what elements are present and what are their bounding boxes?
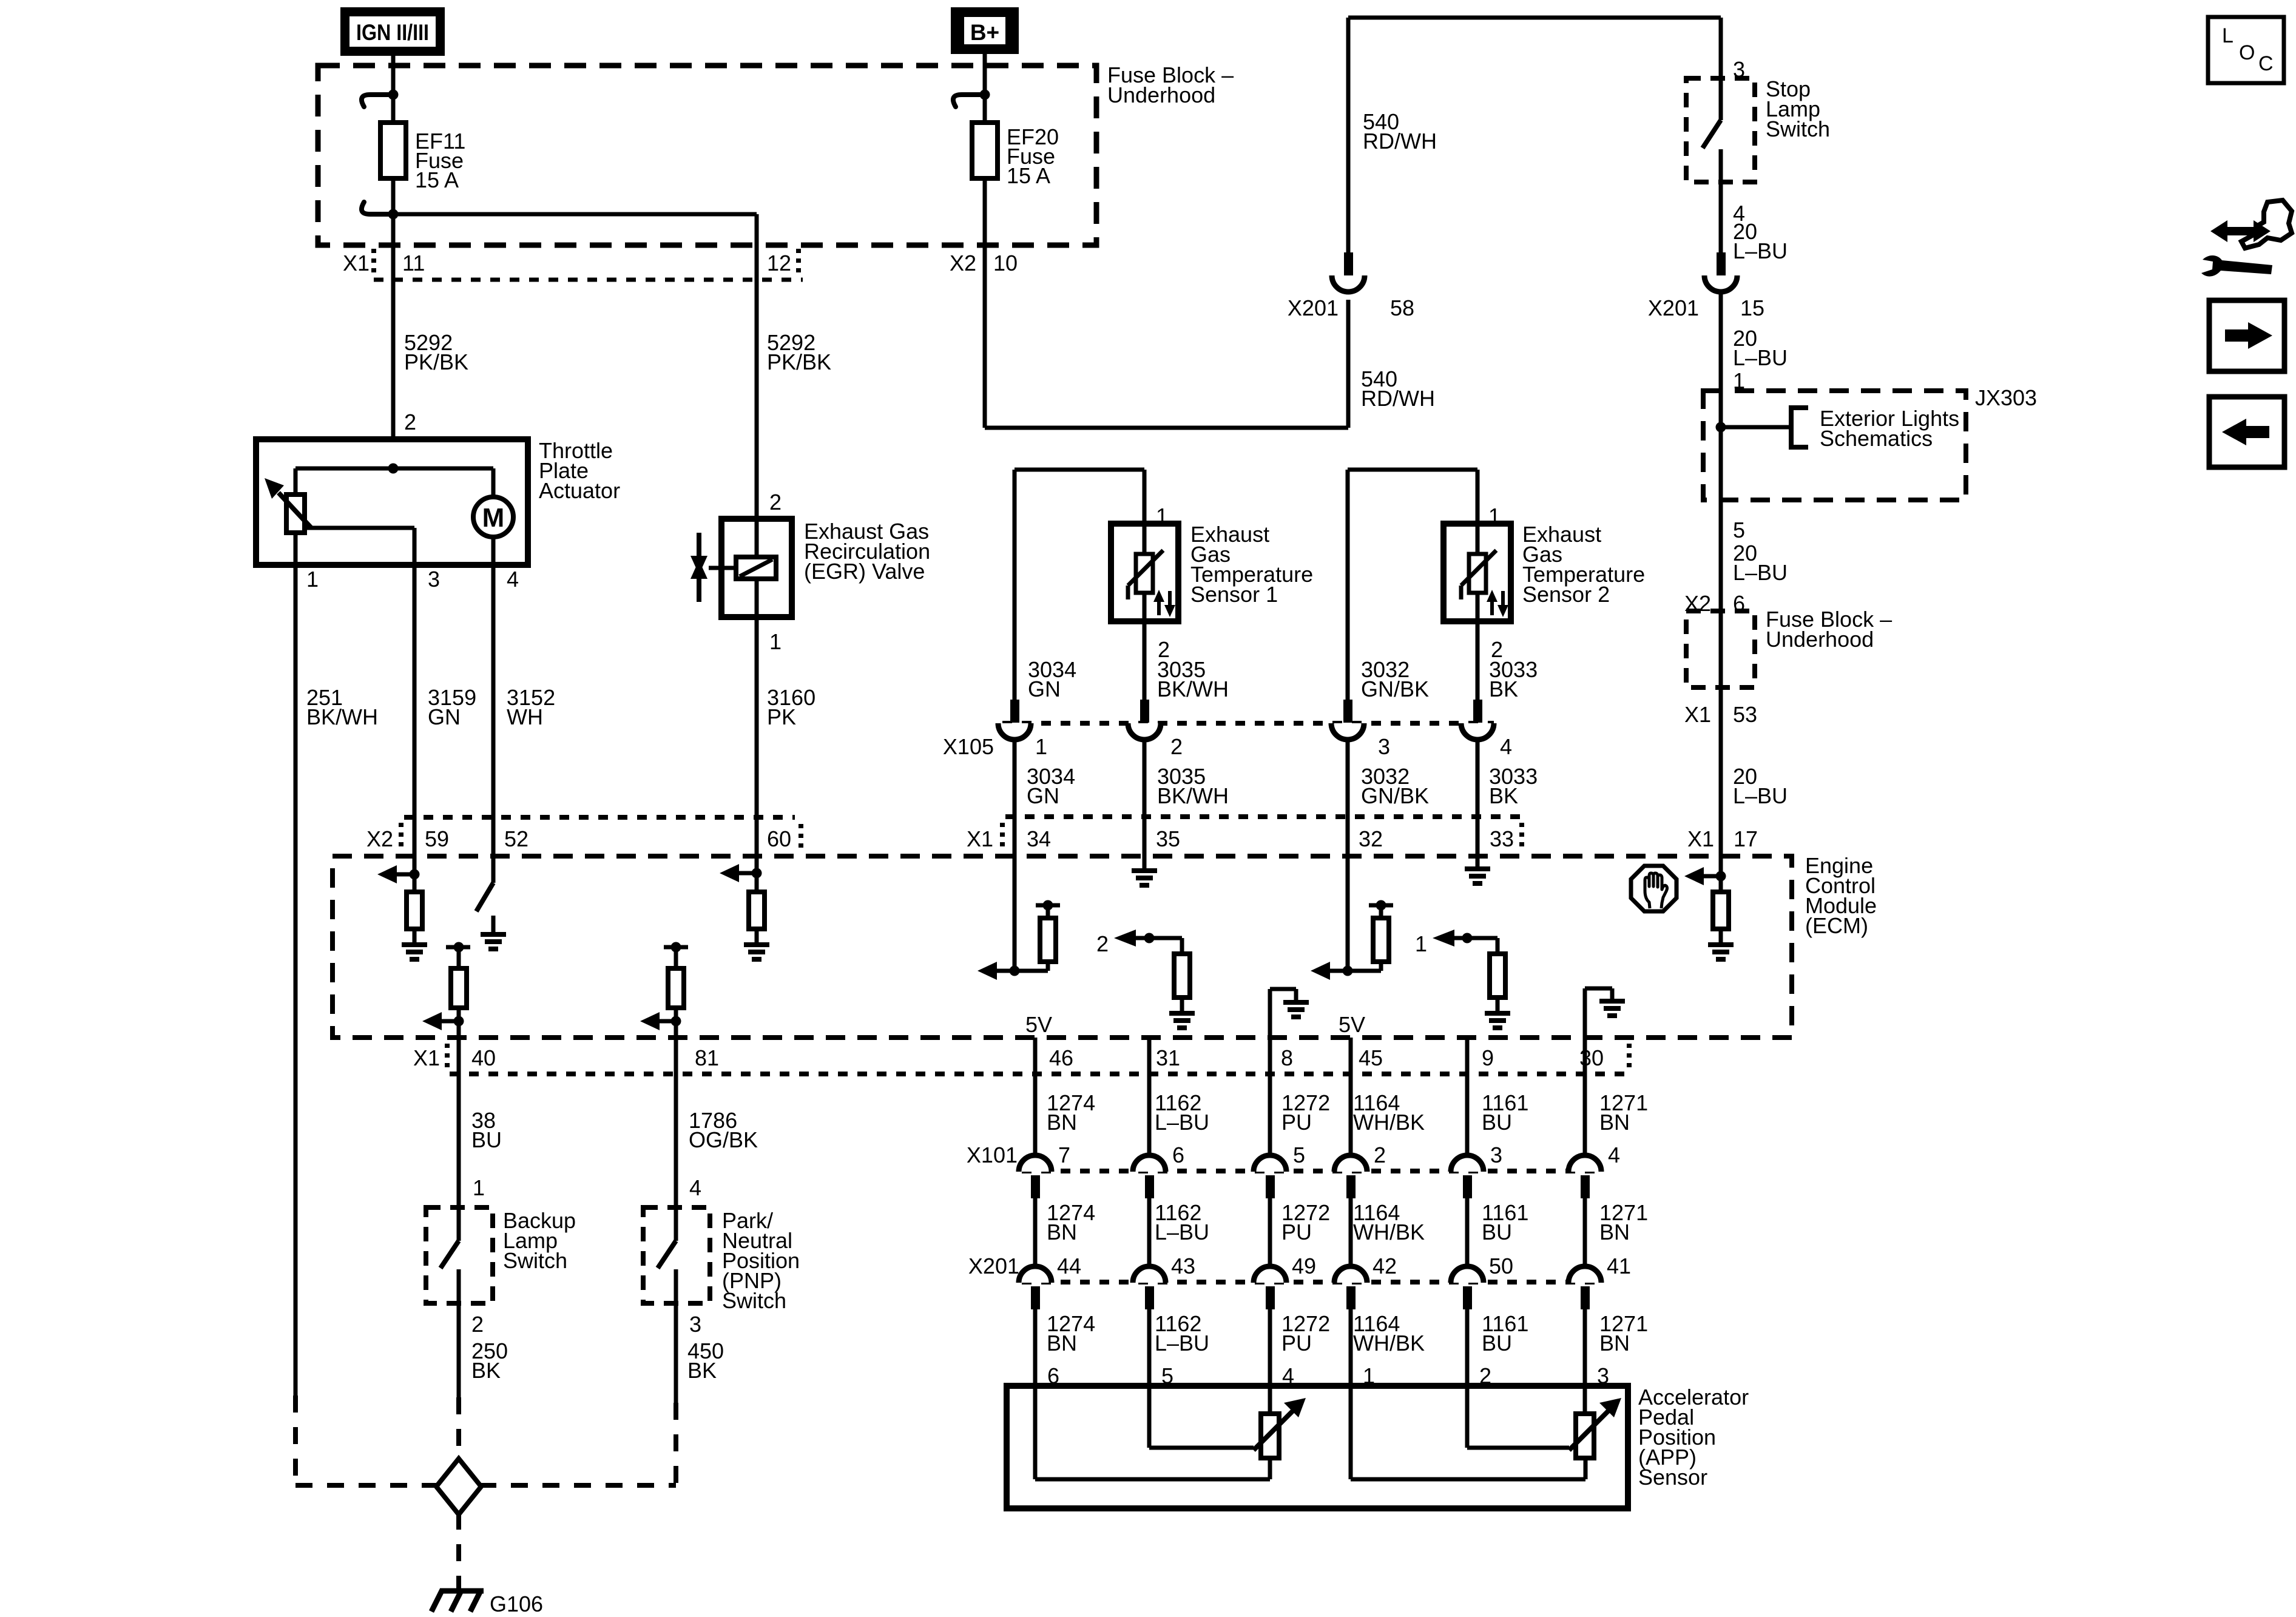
label wire 1161 BU (3) (1482, 1311, 1528, 1355)
svg-text:X1: X1 (1684, 702, 1711, 727)
label wire 38 BU (471, 1108, 502, 1152)
svg-text:52: 52 (504, 826, 528, 851)
ECM internal: pin 17 sense (1684, 867, 1734, 959)
label EF11 Fuse 15 A (415, 129, 465, 192)
svg-text:Sensor: Sensor (1638, 1465, 1707, 1490)
label Exterior Lights Schematics (1820, 406, 1959, 451)
label wire 1272 PU (1) (1281, 1090, 1330, 1135)
svg-text:44: 44 (1057, 1254, 1081, 1278)
svg-text:GN: GN (1028, 677, 1061, 701)
svg-text:WH/BK: WH/BK (1353, 1220, 1425, 1244)
wire 250 BK (457, 1303, 461, 1460)
svg-text:Underhood: Underhood (1766, 627, 1874, 652)
park/neutral position switch (643, 1207, 710, 1303)
svg-text:1: 1 (1156, 504, 1168, 528)
svg-text:WH/BK: WH/BK (1353, 1110, 1425, 1135)
label wire 20 L-BU (1) (1733, 219, 1788, 263)
label X1 17 (1687, 826, 1758, 851)
label pin 2 EGT1 (1158, 637, 1170, 662)
svg-text:RD/WH: RD/WH (1361, 386, 1435, 411)
connector row X101 (967, 1143, 1620, 1198)
label wire 3160 PK (767, 685, 815, 729)
connector row X2 59/52/60 (366, 817, 801, 852)
svg-text:L–BU: L–BU (1155, 1220, 1209, 1244)
ECM internal: pin 30 ground (1585, 988, 1625, 1038)
label wire 1162 L–BU (2) (1155, 1200, 1209, 1244)
node throttle feed junction (295, 464, 493, 474)
wire X201-15 to JX303 (1719, 291, 1723, 391)
svg-text:4: 4 (689, 1175, 701, 1200)
wire pin 59 into ECM (413, 817, 417, 892)
svg-text:3: 3 (1378, 734, 1390, 759)
svg-text:81: 81 (695, 1045, 719, 1070)
icon arrow back (2209, 397, 2284, 467)
label pin 4 throttle (507, 567, 519, 592)
wire EF11 to X1-11 (391, 178, 396, 439)
label pin 1 EGT2 (1488, 504, 1501, 528)
svg-text:1: 1 (1035, 734, 1047, 759)
label wire 5292 PK/BK (right) (767, 330, 831, 374)
connector row X1 11/12 (fuse block) (343, 249, 803, 280)
svg-text:IGN II/III: IGN II/III (356, 20, 429, 45)
svg-text:WH/BK: WH/BK (1353, 1331, 1425, 1355)
icon arrow next (2209, 300, 2284, 371)
label Fuse Block - Underhood (right) (1766, 607, 1892, 652)
icon diagnostic tools (2201, 200, 2292, 277)
label wire 3159 GN (428, 685, 476, 729)
wire pin 52 into ECM (491, 817, 496, 883)
svg-text:60: 60 (767, 826, 791, 851)
label pin 1 EGR (769, 629, 782, 654)
engine control module (ECM) box (333, 856, 1792, 1038)
wire 540 RD/WH feed (985, 18, 1721, 428)
svg-text:15 A: 15 A (415, 167, 459, 192)
label wire 250 BK (471, 1338, 508, 1383)
svg-text:Actuator: Actuator (539, 478, 620, 503)
power node IGN II/III (340, 7, 445, 56)
wire fuse block to ECM X1-17 (1719, 611, 1723, 856)
svg-text:X105: X105 (943, 734, 994, 759)
svg-text:4: 4 (507, 567, 519, 592)
svg-text:BK: BK (1489, 783, 1518, 808)
label wire 1271 BN (3) (1599, 1311, 1648, 1355)
svg-text:X201: X201 (1288, 295, 1339, 320)
wires X201 to APP sensor (1035, 1309, 1585, 1386)
label wire 1161 BU (1) (1482, 1090, 1528, 1135)
ECM internal: pin 34 pull-up (977, 900, 1060, 981)
svg-text:X1: X1 (413, 1045, 440, 1070)
stop lamp switch (1686, 78, 1755, 182)
ECM internal: pin 31 sense (1096, 930, 1195, 1028)
svg-text:BK: BK (1489, 677, 1518, 701)
label JX303 (1975, 385, 2037, 410)
fuse EF11 (362, 90, 406, 220)
ECM internal: pin 59 sense (377, 865, 427, 959)
label wire 1272 PU (2) (1281, 1200, 1330, 1244)
svg-text:BU: BU (1482, 1331, 1512, 1355)
svg-text:Schematics: Schematics (1820, 426, 1933, 451)
label pin 1 JX303 (1733, 368, 1745, 393)
svg-text:45: 45 (1359, 1045, 1383, 1070)
svg-text:33: 33 (1490, 826, 1514, 851)
svg-text:GN/BK: GN/BK (1361, 783, 1429, 808)
label wire 1272 PU (3) (1281, 1311, 1330, 1355)
wire JX303 to fuse block X2-6 (1719, 500, 1723, 611)
svg-text:2: 2 (1096, 931, 1109, 956)
potentiometer throttle position (265, 468, 414, 565)
motor M throttle (473, 468, 513, 565)
svg-text:X1: X1 (1687, 826, 1714, 851)
svg-text:L–BU: L–BU (1733, 560, 1788, 585)
svg-text:1: 1 (306, 567, 319, 592)
svg-text:X2: X2 (950, 251, 976, 275)
svg-text:Underhood: Underhood (1107, 83, 1215, 107)
svg-text:2: 2 (471, 1312, 484, 1337)
svg-text:35: 35 (1156, 826, 1180, 851)
label wire 1164 WH/BK (3) (1353, 1311, 1425, 1355)
junction block JX303 (1703, 391, 1966, 500)
label wire 3035 BK/WH (upper) (1157, 657, 1229, 701)
label wire 1162 L–BU (1) (1155, 1090, 1209, 1135)
wire pin 60 into ECM (755, 817, 759, 892)
APP wiper wire 1 (pin 5) (1149, 1386, 1254, 1448)
ECM internal: 5V source pin 45 (1339, 1012, 1365, 1037)
wire 3152 WH (491, 565, 496, 856)
svg-text:L–BU: L–BU (1155, 1331, 1209, 1355)
svg-text:9: 9 (1482, 1045, 1494, 1070)
svg-text:L: L (2222, 24, 2234, 47)
svg-text:PU: PU (1281, 1220, 1312, 1244)
svg-text:42: 42 (1373, 1254, 1397, 1278)
svg-text:JX303: JX303 (1975, 385, 2037, 410)
svg-text:5V: 5V (1025, 1012, 1052, 1037)
wire 3032 GN/BK to ECM (1346, 740, 1350, 856)
wire 450 BK (674, 1303, 678, 1485)
ECM internal: 5V source pin 46 (1025, 1012, 1052, 1037)
label pin 2 EGR (769, 490, 782, 515)
connector X201-15 (1648, 252, 1764, 320)
wire stop lamp to X201-15 (1719, 182, 1723, 255)
svg-text:Sensor 1: Sensor 1 (1190, 582, 1278, 607)
svg-text:1: 1 (769, 629, 782, 654)
svg-text:BN: BN (1047, 1220, 1077, 1244)
accelerator pedal position (APP) sensor (1007, 1386, 1628, 1508)
svg-text:X2: X2 (366, 826, 393, 851)
svg-text:8: 8 (1281, 1045, 1293, 1070)
svg-text:GN: GN (428, 704, 461, 729)
svg-text:X1: X1 (967, 826, 993, 851)
label 540 RD/WH (upper) (1363, 109, 1437, 154)
ECM internal: pin 81 driver (640, 942, 688, 1038)
wire EF11 branch to X1-12 (393, 214, 757, 519)
label wire 3152 WH (507, 685, 555, 729)
svg-text:BK: BK (471, 1358, 501, 1383)
label pin 1 backup lamp switch (473, 1175, 485, 1200)
splice to ground bus (436, 1459, 481, 1514)
svg-text:50: 50 (1489, 1254, 1513, 1278)
svg-text:5: 5 (1293, 1143, 1305, 1167)
svg-text:4: 4 (1500, 734, 1512, 759)
ECM internal: pin 60 sense (720, 864, 769, 959)
label wire 3034 GN (upper) (1028, 657, 1076, 701)
svg-text:17: 17 (1734, 826, 1758, 851)
label pin 2 EGT2 (1491, 637, 1503, 662)
ECM internal: pin 8 ground (1270, 989, 1309, 1038)
icon stop hand (1631, 866, 1676, 911)
label Stop Lamp Switch (1766, 76, 1830, 141)
label G106 (490, 1592, 543, 1616)
svg-text:PU: PU (1281, 1110, 1312, 1135)
svg-text:PK/BK: PK/BK (767, 349, 831, 374)
label wire 20 L-BU (4) (1733, 764, 1788, 808)
label wire 251 BK/WH (306, 685, 378, 729)
APP potentiometer 2 (1569, 1386, 1621, 1479)
svg-text:Switch: Switch (503, 1248, 567, 1273)
wire B+ to fuse EF20 (983, 54, 987, 123)
svg-text:6: 6 (1172, 1143, 1184, 1167)
svg-text:BK/WH: BK/WH (1157, 677, 1229, 701)
label Accelerator Pedal Position (APP) Sensor (1638, 1385, 1749, 1490)
svg-text:OG/BK: OG/BK (689, 1127, 758, 1152)
svg-text:GN: GN (1027, 783, 1059, 808)
wire through JX303 (1719, 391, 1723, 500)
wire pin 32 into ECM (1346, 817, 1350, 971)
connector row X1 (ECM bottom) (413, 1044, 1629, 1074)
connector X201-58 (1288, 252, 1414, 320)
svg-text:WH: WH (507, 704, 543, 729)
svg-text:(ECM): (ECM) (1805, 913, 1868, 938)
label wire 1271 BN (2) (1599, 1200, 1648, 1244)
svg-text:(EGR) Valve: (EGR) Valve (804, 559, 925, 584)
ground bus wires (295, 1483, 676, 1488)
wire 3033 BK to ECM (1476, 740, 1480, 856)
wire 3034 GN to ECM (1013, 740, 1017, 856)
svg-text:BU: BU (1482, 1220, 1512, 1244)
fuse block - underhood box (top) (318, 66, 1096, 245)
label wire 1786 OG/BK (689, 1108, 758, 1152)
svg-text:B+: B+ (970, 20, 999, 45)
exhaust gas temperature sensor 1 (1015, 470, 1178, 704)
svg-text:BN: BN (1599, 1220, 1630, 1244)
svg-text:2: 2 (769, 490, 782, 515)
backup lamp switch (426, 1207, 493, 1303)
label Park/Neutral Position (PNP) Switch (722, 1208, 800, 1313)
svg-text:1: 1 (1415, 931, 1427, 956)
wire pin 33 into ECM (1476, 817, 1480, 869)
svg-text:Switch: Switch (1766, 116, 1830, 141)
svg-text:BN: BN (1047, 1331, 1077, 1355)
label wire 450 BK (687, 1338, 724, 1383)
svg-text:49: 49 (1292, 1254, 1316, 1278)
wire 251 BK/WH (294, 565, 298, 1485)
svg-text:43: 43 (1171, 1254, 1195, 1278)
label EF20 Fuse 15 A (1007, 124, 1059, 188)
label pin 1 throttle (306, 567, 319, 592)
svg-text:58: 58 (1390, 295, 1414, 320)
label pin 3 throttle (428, 567, 440, 592)
svg-text:BU: BU (471, 1127, 502, 1152)
ground G106 (431, 1590, 484, 1612)
label wire 1274 BN (2) (1047, 1200, 1095, 1244)
label Fuse Block - Underhood (top) (1107, 62, 1234, 107)
svg-text:15: 15 (1740, 295, 1764, 320)
label Exhaust Gas Recirculation (EGR) Valve (804, 519, 930, 584)
label pin 2 throttle (404, 410, 416, 434)
svg-text:PU: PU (1281, 1331, 1312, 1355)
wire 3160 PK (755, 617, 759, 856)
svg-text:3: 3 (428, 567, 440, 592)
label pin 4 stop lamp switch (1733, 201, 1745, 226)
svg-text:BU: BU (1482, 1110, 1512, 1135)
label wire 1161 BU (2) (1482, 1200, 1528, 1244)
APP potentiometer 1 (1254, 1386, 1306, 1479)
label wire 20 L-BU (3) (1733, 541, 1788, 585)
svg-text:15 A: 15 A (1007, 163, 1050, 188)
label wire 1164 WH/BK (1) (1353, 1090, 1425, 1135)
svg-text:12: 12 (767, 251, 791, 275)
svg-text:34: 34 (1027, 826, 1051, 851)
svg-text:X101: X101 (967, 1143, 1018, 1167)
wire 3035 BK/WH to ECM (1143, 740, 1147, 856)
wires ECM X1 to X101 (1035, 1038, 1585, 1155)
svg-text:3: 3 (689, 1312, 701, 1337)
APP wiper wire 2 (pin 2) (1467, 1386, 1569, 1448)
svg-text:31: 31 (1156, 1045, 1180, 1070)
svg-text:53: 53 (1733, 702, 1757, 727)
svg-text:59: 59 (425, 826, 449, 851)
ECM internal: pin 9 sense (1415, 930, 1510, 1028)
svg-text:2: 2 (404, 410, 416, 434)
svg-text:1: 1 (473, 1175, 485, 1200)
label wire 3032 GN/BK (upper) (1361, 657, 1429, 701)
label Engine Control Module (ECM) (1805, 853, 1877, 938)
node junction to exterior lights (1716, 408, 1809, 447)
label Exhaust Gas Temperature Sensor 2 (1522, 522, 1645, 607)
svg-text:3: 3 (1490, 1143, 1502, 1167)
throttle plate actuator (256, 439, 528, 565)
wire 1786 OG/BK (674, 1038, 678, 1207)
svg-text:BK/WH: BK/WH (1157, 783, 1229, 808)
icon LOC (2208, 17, 2284, 83)
wire pin 34 into ECM (1013, 817, 1017, 971)
label wire 3034 GN (lower) (1027, 764, 1075, 808)
label Exhaust Gas Temperature Sensor 1 (1190, 522, 1313, 607)
label Throttle Plate Actuator (539, 438, 620, 503)
label pin 3 PNP switch (689, 1312, 701, 1337)
svg-text:4: 4 (1608, 1143, 1620, 1167)
power node B+ (951, 7, 1019, 54)
wires X101 to X201 (1035, 1198, 1585, 1266)
labels APP sensor pins (1047, 1363, 1609, 1388)
label 540 RD/WH (lower) (1361, 366, 1435, 411)
wire 38 BU (457, 1038, 461, 1207)
svg-text:11: 11 (402, 251, 425, 275)
svg-text:BK/WH: BK/WH (306, 704, 378, 729)
ECM internal: pin 40 driver (422, 942, 470, 1038)
label pin 2 backup lamp switch (471, 1312, 484, 1337)
wire IGN II/III to fuse EF11 (391, 54, 396, 123)
label wire 1271 BN (1) (1599, 1090, 1648, 1135)
label wire 3035 BK/WH (lower) (1157, 764, 1229, 808)
svg-text:RD/WH: RD/WH (1363, 129, 1437, 154)
label pin 5 fuse block (1733, 518, 1745, 542)
label Backup Lamp Switch (503, 1208, 576, 1273)
svg-text:Switch: Switch (722, 1288, 786, 1313)
svg-text:G106: G106 (490, 1592, 543, 1616)
EGR valve flow symbol (690, 533, 707, 602)
svg-text:X201: X201 (968, 1254, 1019, 1278)
svg-text:BN: BN (1047, 1110, 1077, 1135)
label wire 1274 BN (3) (1047, 1311, 1095, 1355)
svg-text:1: 1 (1488, 504, 1501, 528)
svg-text:32: 32 (1359, 826, 1383, 851)
wire EF20 to X2-10 down to junction (983, 178, 987, 428)
svg-text:5V: 5V (1339, 1012, 1365, 1037)
label pin 1 EGT1 (1156, 504, 1168, 528)
label pin 4 PNP switch (689, 1175, 701, 1200)
svg-text:46: 46 (1049, 1045, 1073, 1070)
fuse block - underhood box (right) (1686, 611, 1755, 687)
connector row X1 34/35/32/33 (967, 817, 1522, 851)
label wire 3033 BK (lower) (1489, 764, 1538, 808)
connector row X105 (943, 700, 1512, 759)
label X2 10 (fuse block) (950, 251, 1018, 275)
label X1 53 (1684, 702, 1757, 727)
label wire 1164 WH/BK (2) (1353, 1200, 1425, 1244)
fuse EF20 (953, 90, 998, 179)
svg-text:10: 10 (993, 251, 1018, 275)
APP low ref wire (pin 6) (1035, 1386, 1270, 1479)
svg-text:X201: X201 (1648, 295, 1699, 320)
APP low ref wire 2 (pin 1) (1351, 1386, 1585, 1479)
label X2 6 (fuse block lower) (1684, 591, 1745, 616)
connector row X201 (968, 1254, 1631, 1309)
EGR valve (709, 519, 792, 617)
svg-text:PK/BK: PK/BK (404, 349, 468, 374)
svg-text:41: 41 (1607, 1254, 1631, 1278)
svg-text:X1: X1 (343, 251, 370, 275)
svg-text:GN/BK: GN/BK (1361, 677, 1429, 701)
svg-text:M: M (482, 503, 505, 533)
ECM internal: pin 52 switch to ground (476, 883, 506, 949)
label pin 3 stop lamp switch (1733, 57, 1745, 82)
svg-text:C: C (2258, 52, 2274, 75)
svg-text:O: O (2239, 41, 2255, 64)
svg-text:L–BU: L–BU (1155, 1110, 1209, 1135)
svg-text:7: 7 (1058, 1143, 1070, 1167)
svg-text:2: 2 (1170, 734, 1183, 759)
svg-text:L–BU: L–BU (1733, 783, 1788, 808)
wire pin 35 into ECM (1143, 817, 1147, 871)
svg-text:BN: BN (1599, 1110, 1630, 1135)
label wire 3033 BK (upper) (1489, 657, 1538, 701)
label wire 1274 BN (1) (1047, 1090, 1095, 1135)
svg-text:L–BU: L–BU (1733, 345, 1788, 370)
label wire 20 L-BU (2) (1733, 326, 1788, 370)
ECM internal: pin 32 pull-up (1311, 900, 1393, 981)
svg-text:PK: PK (767, 704, 796, 729)
svg-text:BK: BK (687, 1358, 717, 1383)
svg-text:2: 2 (1374, 1143, 1386, 1167)
wire 3159 GN (413, 565, 417, 856)
exhaust gas temperature sensor 2 (1348, 470, 1511, 704)
svg-text:Sensor 2: Sensor 2 (1522, 582, 1610, 607)
svg-text:L–BU: L–BU (1733, 238, 1788, 263)
ECM internal: pin 33 ground (1465, 869, 1490, 883)
svg-text:5: 5 (1733, 518, 1745, 542)
ECM internal: pin 35 ground (1132, 871, 1157, 885)
label wire 1162 L–BU (3) (1155, 1311, 1209, 1355)
